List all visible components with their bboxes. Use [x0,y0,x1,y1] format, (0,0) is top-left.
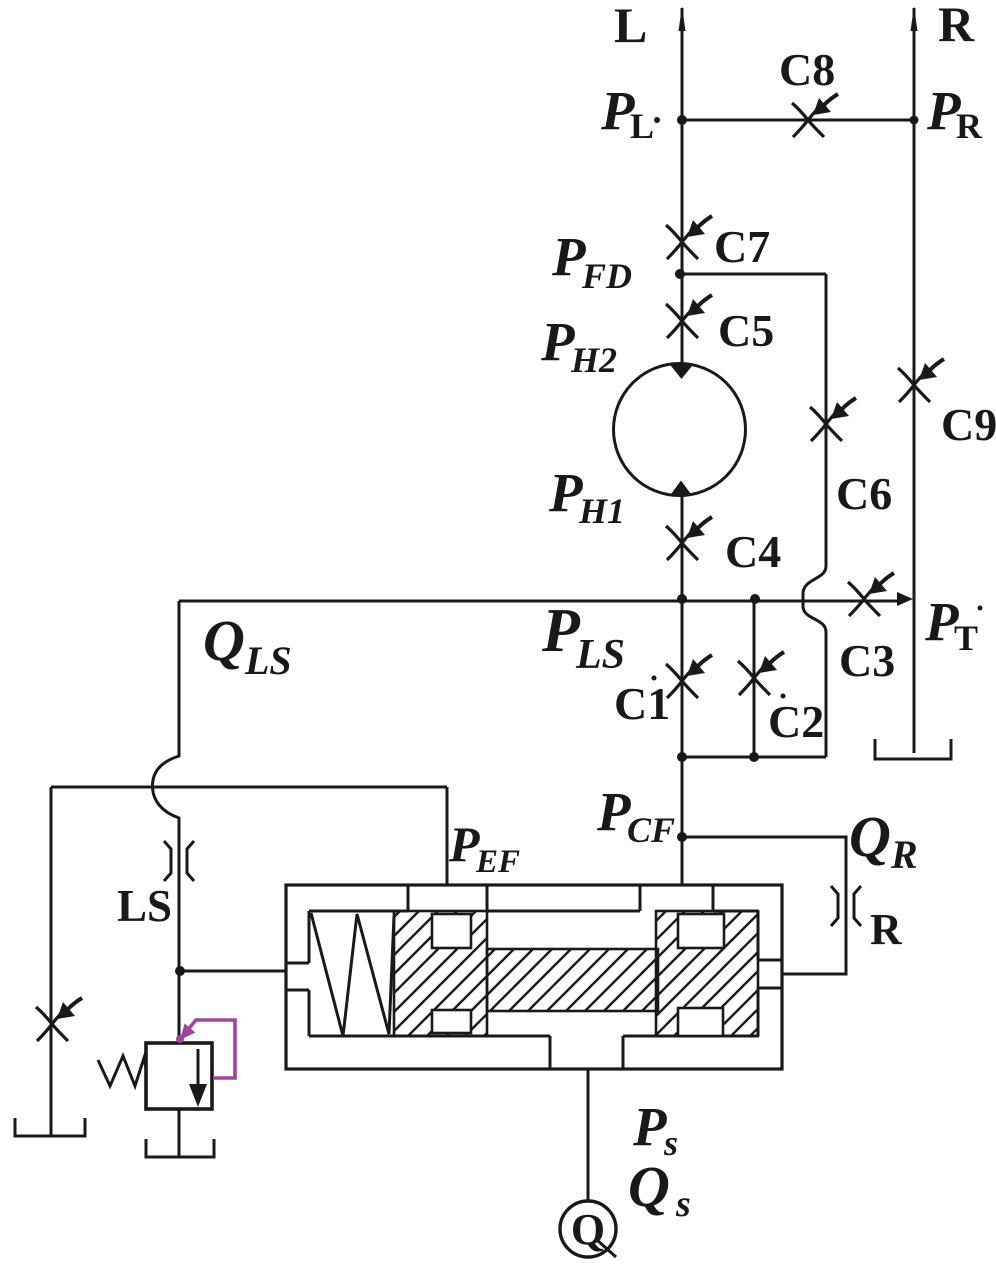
svg-text:T: T [954,618,978,658]
svg-text:R: R [956,106,983,146]
orifice C4 [666,517,712,560]
svg-text:P: P [540,311,575,372]
wire QR line [682,837,846,974]
relief valve body [146,1043,212,1109]
svg-text:FD: FD [581,256,632,296]
node PLS-C2 junction [750,594,760,604]
orifice C3 [848,573,894,616]
relief valve arrow [197,1049,200,1086]
orifice C6 [810,398,856,441]
valve spring [311,913,394,1036]
svg-text:P: P [596,781,631,842]
node PFD junction [675,269,685,279]
node R arrow [911,6,918,31]
svg-text:H1: H1 [578,491,625,531]
orifice R fixed [831,886,861,926]
wire PL-PR cross line [682,119,914,122]
svg-text:Q: Q [628,1154,670,1219]
orifice C7 [666,216,712,259]
svg-text:s: s [675,1183,691,1225]
svg-text:CF: CF [627,810,675,850]
svg-text:LS: LS [117,881,172,931]
orifice left drain [36,998,82,1041]
orifice C8 [792,94,838,137]
valve bore [309,911,758,1036]
wire PLS line [179,600,897,603]
pump circle Q [560,1201,616,1257]
node PCF junction [677,832,687,842]
valve port LS side [286,963,309,990]
orifice C5 [666,295,712,338]
svg-text:C1: C1 [614,678,670,729]
orifice LS fixed [164,841,194,881]
svg-text:C3: C3 [839,635,895,686]
node PL junction [677,115,687,125]
node C2 bottom junction [749,752,759,762]
spool right land bottom notch [678,1008,723,1036]
wire LS to valve left port [180,970,286,973]
svg-text:H2: H2 [570,340,617,380]
spool right land [656,911,758,1036]
wire R supply line [913,8,916,753]
label C1 [652,676,657,681]
node PLS-C1 junction [677,594,687,604]
wire C2 branch [753,599,756,757]
valve outer body [286,885,782,1069]
valve port R side [758,960,782,988]
relief valve spring [98,1056,146,1086]
wire QLS line with hop [152,601,179,1043]
tank right [875,739,951,759]
svg-text:P: P [548,462,583,523]
wire C6 line with hop over PLS [803,274,826,757]
svg-text:P: P [551,226,586,287]
node L arrow [679,6,686,31]
spool right land top notch [678,914,724,948]
spool middle band [487,949,658,1011]
node PR junction [910,116,919,125]
svg-text:C5: C5 [718,305,774,356]
orifice C9 [898,359,944,402]
valve port PEF [408,885,487,911]
svg-text:P: P [541,597,581,665]
wire L supply line top [681,8,684,363]
relief pilot arrowhead [180,1024,195,1041]
wire L line below motor [681,496,684,885]
svg-text:Q: Q [849,804,891,869]
svg-text:C6: C6 [836,468,892,519]
svg-text:C4: C4 [725,526,781,577]
valve port Ps [550,1036,623,1069]
svg-text:C8: C8 [779,44,835,95]
motor top arrow [669,364,694,380]
spool left land bottom notch [432,1010,471,1033]
wire C1 C2 bottom link [682,756,826,759]
svg-text:R: R [870,905,903,954]
motor circle [614,364,746,496]
svg-text:Q: Q [203,608,245,673]
orifice C1 [666,655,712,698]
orifice C2 [738,652,784,695]
svg-text:L: L [630,106,654,146]
valve port PCF [640,885,713,911]
wire QLS-PEF horizontal line [51,786,447,789]
svg-text:EF: EF [475,844,520,880]
relief pilot line purple [181,1020,235,1078]
pump Q tail [597,1240,616,1257]
wire PFD branch to C6 [682,273,826,276]
tank relief [146,1139,214,1157]
svg-text:P: P [632,1096,667,1157]
node C1 bottom junction [677,752,687,762]
svg-text:L: L [614,0,647,53]
svg-text:LS: LS [244,638,292,683]
spool left land [394,911,487,1036]
svg-text:C2: C2 [768,696,824,747]
wire left drain branch [50,787,53,1136]
motor bottom arrow [670,481,692,496]
wire PEF drop to valve [446,787,449,885]
spool left land top notch [432,914,471,948]
node PLS arrowhead into tank line [897,592,913,606]
svg-text:R: R [890,832,918,877]
label C2 [781,694,786,699]
svg-text:Q: Q [571,1205,605,1254]
svg-text:LS: LS [575,632,625,678]
svg-text:R: R [938,0,975,52]
svg-text:C9: C9 [941,399,996,450]
svg-text:C7: C7 [714,221,770,272]
wire Ps line to pump [587,1069,590,1201]
node LS junction [175,966,185,976]
tank left [15,1118,85,1136]
wire relief to tank [178,1109,181,1156]
